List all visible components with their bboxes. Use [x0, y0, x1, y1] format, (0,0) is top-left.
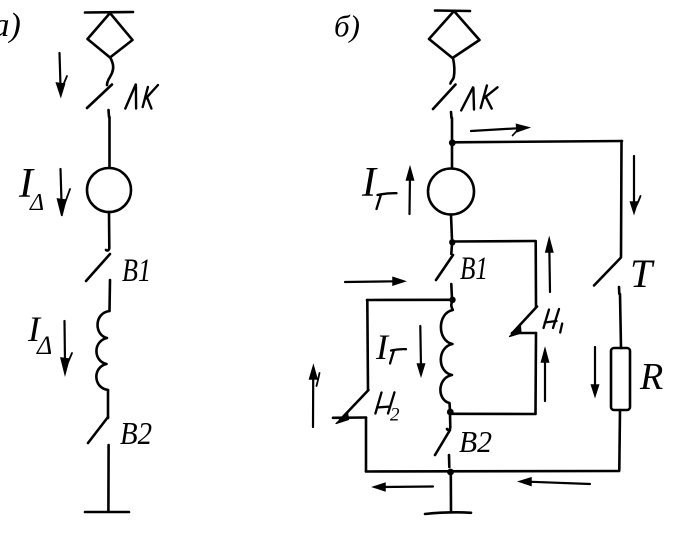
svg-text:Т: Т	[630, 251, 655, 296]
svg-text:I: I	[361, 160, 378, 206]
svg-text:В1: В1	[460, 251, 488, 287]
svg-text:В2: В2	[120, 415, 152, 451]
svg-text:I: I	[375, 327, 390, 367]
svg-text:В1: В1	[122, 253, 151, 289]
svg-text:Δ: Δ	[29, 190, 44, 216]
svg-text:a): a)	[0, 7, 21, 44]
svg-text:б): б)	[334, 9, 360, 44]
svg-text:В2: В2	[459, 424, 492, 459]
svg-text:R: R	[639, 356, 663, 398]
svg-text:2: 2	[390, 405, 400, 426]
svg-text:Δ: Δ	[36, 331, 52, 360]
